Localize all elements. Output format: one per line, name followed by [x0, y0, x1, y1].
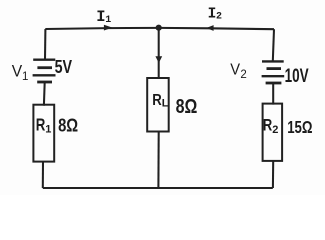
svg-text:I: I	[96, 8, 105, 26]
svg-text:5V: 5V	[55, 56, 73, 77]
svg-text:8Ω: 8Ω	[58, 115, 78, 136]
svg-text:1: 1	[45, 123, 51, 135]
svg-text:8Ω: 8Ω	[176, 96, 198, 118]
svg-text:R: R	[36, 116, 46, 135]
svg-text:2: 2	[272, 124, 278, 136]
svg-text:R: R	[152, 92, 162, 109]
svg-text:V: V	[230, 61, 241, 78]
svg-text:1: 1	[22, 71, 28, 83]
svg-text:R: R	[263, 117, 273, 135]
svg-text:V: V	[12, 62, 23, 81]
svg-text:2: 2	[216, 12, 222, 23]
svg-text:1: 1	[105, 15, 111, 26]
svg-text:2: 2	[240, 69, 246, 81]
svg-text:10V: 10V	[285, 66, 309, 87]
svg-text:I: I	[208, 7, 217, 23]
svg-text:L: L	[162, 98, 169, 110]
svg-text:15Ω: 15Ω	[287, 118, 312, 137]
